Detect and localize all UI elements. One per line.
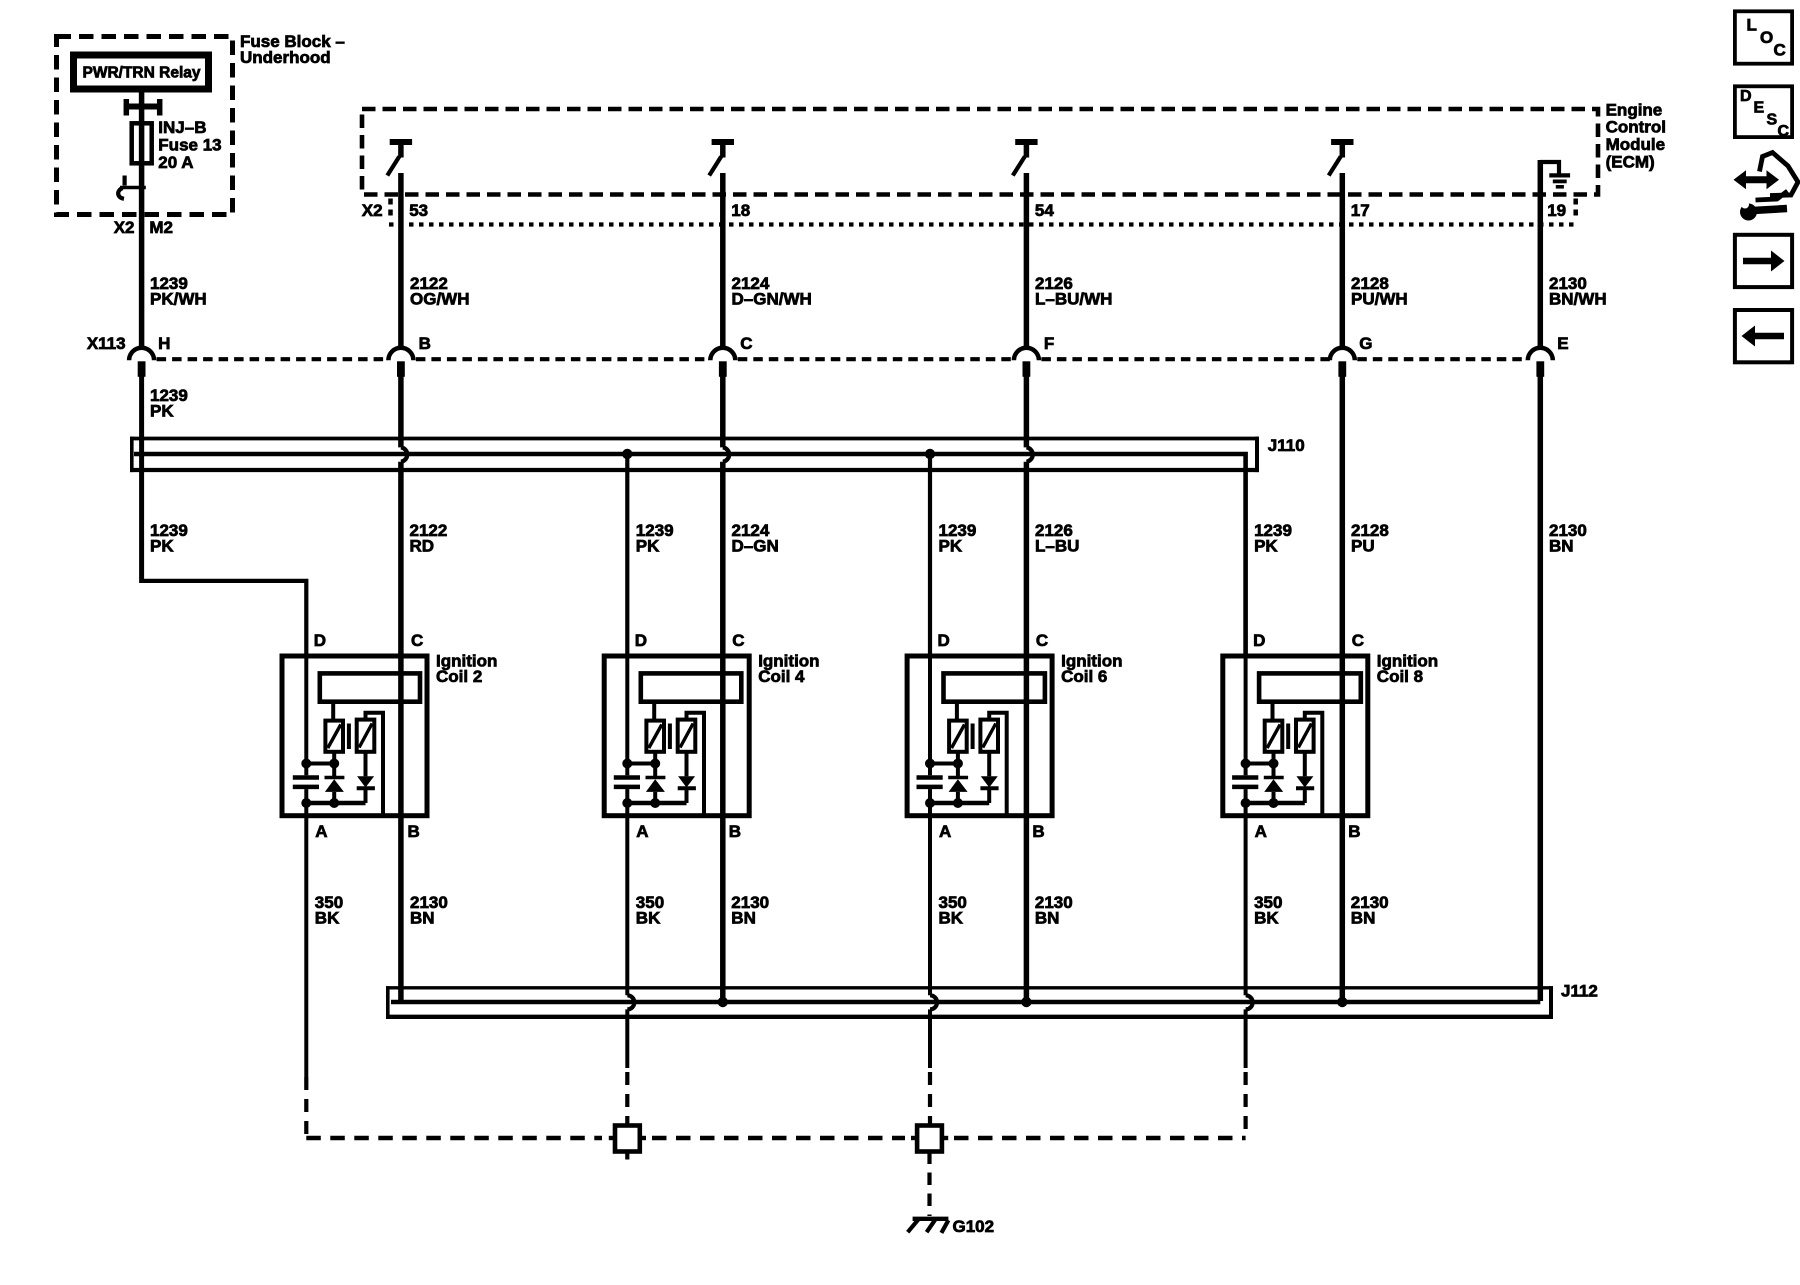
wire 1239 PK L-bend feeding coil 2 [142,581,307,656]
splice box S1 [615,1126,640,1152]
coil 6 driver element right [980,720,998,752]
hop of wire 2124 over J110 [723,447,729,461]
coil 8 driver element left [1265,721,1283,752]
coil 8 node upper [1246,762,1274,766]
connector X113 pin B [388,348,413,361]
svg-text:C: C [411,631,423,650]
fuse F13 INJ-B body [132,123,152,163]
svg-text:F: F [1044,334,1054,353]
coil 6 pin A wire inside box [928,803,932,818]
svg-text:D: D [314,631,326,650]
svg-text:Fuse 13: Fuse 13 [158,136,221,155]
svg-text:D–GN: D–GN [732,537,779,556]
svg-text:B: B [729,822,741,841]
relay K1 PWR/TRN Relay box [74,55,209,89]
svg-text:M2: M2 [149,218,173,237]
svg-text:X113: X113 [87,334,126,353]
splice joint J112 wire 2130 coil6 [1021,997,1031,1007]
coil 8 driver gap tick [1286,724,1290,750]
coil 8 zener diode (up) [1264,776,1284,780]
ECM internal ground at pin 19 [1540,162,1559,175]
svg-text:C: C [732,631,744,650]
wire 2124 from X113 C (hops J110) [720,376,726,447]
svg-text:PK: PK [636,537,660,556]
svg-text:E: E [1754,100,1765,117]
svg-text:BN: BN [1035,909,1060,928]
svg-text:G102: G102 [953,1217,995,1236]
wire from ECM pin 54 [1024,173,1030,349]
coil 8 primary winding box [1259,673,1361,701]
coil 6 node lower [930,801,989,805]
wire 1239 PK drop to coil 6 [928,454,932,656]
wire 2126 from X113 F (hops J110) [1024,376,1030,447]
dashed ground wire from coil 2 [304,1077,308,1138]
icon box LOC [1735,11,1792,63]
coil 8 winding to driver stub [1271,700,1275,722]
dashed ground bus line [306,1136,602,1140]
wire from ECM pin 53 [398,173,404,349]
svg-text:D: D [1740,88,1752,105]
coil 4 driver element left [646,721,664,752]
svg-text:OG/WH: OG/WH [410,290,470,309]
ECM driver pin 53 symbol [390,139,412,145]
coil 8 pin A wire inside box [1244,803,1248,818]
svg-text:D–GN/WH: D–GN/WH [732,290,812,309]
svg-text:J110: J110 [1268,436,1305,455]
coil 4 driver gap tick [668,724,672,750]
svg-text:A: A [315,822,327,841]
svg-text:PK: PK [1254,537,1278,556]
icon box arrow left [1735,310,1792,362]
wire 350 BK from coil 6 pin A (hops J112) [928,815,932,995]
wire 2122 from X113 B (hops J110) [398,376,404,447]
wire 1239 PK from X113 H [139,376,144,583]
svg-text:53: 53 [409,201,428,220]
coil 2 driver element right [357,720,375,752]
in-line connector hook symbol [122,176,126,186]
svg-text:Underhood: Underhood [240,48,331,67]
fuse clip bracket [124,99,130,116]
svg-text:RD: RD [410,537,435,556]
svg-text:Coil 6: Coil 6 [1061,667,1107,686]
svg-text:L: L [1747,16,1757,35]
svg-text:E: E [1557,334,1568,353]
svg-text:Coil 2: Coil 2 [436,667,482,686]
hop of wire 350 BK coil8 over J112 [1246,995,1253,1009]
ignition coil 2 [282,631,497,841]
coil 6 capacitor [917,775,943,780]
svg-text:B: B [419,334,431,353]
svg-text:BN: BN [731,909,756,928]
splice joint on J110 for coil 4 feed [622,449,632,459]
ECM dashed box [362,109,1598,195]
coil 6 driver element left [949,721,967,752]
splice pack J112 outline [386,986,1553,989]
wire from ECM pin 17 [1340,173,1346,349]
coil 4 node lower [627,801,686,805]
coil 6 outline box [907,656,1052,816]
svg-text:C: C [1774,41,1786,60]
coil 2 pin A wire inside box [304,803,308,818]
svg-text:BK: BK [636,909,661,928]
svg-text:PK: PK [939,537,963,556]
svg-text:20 A: 20 A [158,153,193,172]
coil 2 driver gap tick [347,724,351,750]
coil 8 outline box [1223,656,1368,816]
connector X113 pin F [1014,348,1039,361]
coil 6 zener diode (up) [948,776,968,780]
wire from ECM pin 18 [720,173,726,349]
svg-text:S: S [1767,111,1778,128]
coil 8 driver element right [1296,720,1314,752]
coil 2 zener diode (up) [325,776,345,780]
coil 6 winding to driver stub [955,700,959,722]
coil 8 capacitor [1232,775,1258,780]
svg-text:18: 18 [731,201,750,220]
svg-text:D: D [938,631,950,650]
coil 2 winding to driver stub [331,700,335,722]
connector X113 pin H [129,348,154,361]
coil 8 secondary hook wire [1305,713,1323,815]
coil 2 node upper [306,762,334,766]
svg-text:BK: BK [315,909,340,928]
ECM driver pin 54 symbol [1015,139,1037,145]
icon box DESC [1735,86,1792,137]
svg-text:A: A [636,822,648,841]
connector X113 pin G [1330,348,1355,361]
coil 4 secondary hook wire [687,713,705,815]
svg-text:C: C [740,334,752,353]
svg-text:Coil 4: Coil 4 [758,667,805,686]
svg-text:C: C [1036,631,1048,650]
coil 6 secondary hook wire [989,713,1007,815]
wire 2128 from X113 G [1340,376,1346,1001]
dashed drop from coil 4 ground [625,1072,629,1124]
connector X113 dashed line [157,357,389,361]
coil 2 outline box [282,656,427,816]
ignition coil 4 [604,631,819,841]
svg-text:PU: PU [1351,537,1375,556]
coil 2 driver element left [325,721,343,752]
ground G102 symbol [913,1217,949,1221]
svg-text:PK: PK [150,402,174,421]
svg-text:L–BU: L–BU [1035,537,1079,556]
coil 4 node upper [627,762,655,766]
coil 6 pin D internal wire [928,656,932,764]
svg-text:(ECM): (ECM) [1606,152,1655,171]
coil 2 node lower [306,801,365,805]
svg-text:X2: X2 [114,218,135,237]
fuse block underhood dashed box [57,37,233,215]
coil 6 diode (down) [987,752,991,777]
svg-text:PK/WH: PK/WH [150,290,207,309]
svg-text:H: H [158,334,170,353]
coil 2 secondary hook wire [366,713,384,815]
coil 4 pin A wire inside box [625,803,629,818]
coil 4 outline box [604,656,749,816]
coil 6 driver gap tick [971,724,975,750]
svg-text:Coil 8: Coil 8 [1377,667,1423,686]
splice box S2 [917,1126,942,1152]
svg-text:PWR/TRN Relay: PWR/TRN Relay [83,65,201,82]
svg-text:B: B [1032,822,1044,841]
svg-text:C: C [1778,123,1790,140]
coil 8 node lower [1246,801,1305,805]
hop of wire 2126 over J110 [1026,447,1032,461]
svg-text:19: 19 [1547,201,1566,220]
svg-text:D: D [1253,631,1265,650]
splice joint on J110 for coil 6 feed [925,449,935,459]
hop of wire 350 BK coil4 over J112 [627,995,634,1009]
svg-text:Module: Module [1606,135,1666,154]
coil 8 pin D internal wire [1244,656,1248,764]
connector X113 pin E [1528,348,1553,361]
svg-text:BK: BK [939,909,964,928]
svg-text:X2: X2 [362,201,383,220]
coil 2 pin D internal wire [304,656,308,764]
svg-text:C: C [1352,631,1364,650]
connector X113 pin C [710,348,735,361]
splice joint J112 wire 2130 coil4 [718,997,728,1007]
icon schematic-jump glyph [1734,153,1799,221]
svg-text:PU/WH: PU/WH [1351,290,1408,309]
ECM driver pin 18 symbol [712,139,734,145]
ECM driver pin 17 symbol [1331,139,1353,145]
wire from ECM pin 19 [1538,160,1544,349]
coil 2 capacitor [293,775,319,780]
coil 6 node upper [930,762,958,766]
hop of wire 2122 over J110 [401,447,407,461]
wire from relay to fuse [139,93,145,350]
wire 350 BK from coil 4 pin A (hops J112) [625,815,629,995]
svg-text:A: A [939,822,951,841]
coil 4 driver element right [678,720,696,752]
coil 4 diode (down) [685,752,689,777]
icon box arrow right [1735,235,1792,287]
splice pack J112 bus bar [391,1000,1540,1005]
wire 350 BK from coil 2 pin A [304,815,308,1077]
svg-text:L–BU/WH: L–BU/WH [1035,290,1112,309]
connector X2 dotted edge line [389,222,1574,226]
svg-text:B: B [408,822,420,841]
coil 4 winding to driver stub [652,700,656,722]
svg-text:BN: BN [1549,537,1574,556]
svg-text:D: D [635,631,647,650]
wire 350 BK from coil 8 pin A (hops J112) [1244,815,1248,995]
svg-text:A: A [1255,822,1267,841]
splice pack J110 outline [130,437,1259,441]
svg-text:BN: BN [410,909,435,928]
splice joint J112 wire 2130 coil8 [1337,997,1347,1007]
coil 6 primary winding box [944,673,1045,701]
svg-text:PK: PK [150,537,174,556]
coil 4 pin D internal wire [625,656,629,764]
svg-text:Engine: Engine [1606,100,1663,119]
svg-text:B: B [1348,822,1360,841]
svg-text:17: 17 [1351,201,1370,220]
coil 2 diode (down) [364,752,368,777]
svg-text:BN: BN [1351,909,1376,928]
ignition coil 6 [907,631,1122,841]
dashed drop from coil 6 ground [928,1072,932,1124]
svg-text:J112: J112 [1561,982,1598,1001]
svg-text:G: G [1359,334,1372,353]
dashed wire from S2 to G102 [927,1152,931,1217]
coil 4 capacitor [614,775,640,780]
dashed drop from coil 8 ground [1243,1072,1247,1138]
wire 2130 from X113 E [1538,376,1544,1001]
svg-text:BN/WH: BN/WH [1549,290,1607,309]
svg-text:54: 54 [1035,201,1054,220]
coil 2 primary winding box [320,673,420,701]
svg-text:INJ–B: INJ–B [158,118,206,137]
svg-text:Control: Control [1606,118,1666,137]
svg-text:O: O [1760,28,1773,47]
svg-text:BK: BK [1254,909,1279,928]
coil 4 primary winding box [641,673,742,701]
wire 1239 PK drop to coil 4 [625,454,629,656]
hop of wire 350 BK coil6 over J112 [930,995,937,1009]
splice pack J110 bus bar [134,454,1246,656]
coil 8 diode (down) [1303,752,1307,777]
ignition coil 8 [1223,631,1438,841]
coil 4 zener diode (up) [646,776,666,780]
